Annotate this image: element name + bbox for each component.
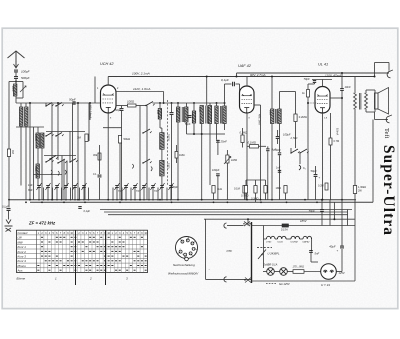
svg-text:1MΩ: 1MΩ bbox=[179, 153, 185, 157]
svg-text:0,7MΩ: 0,7MΩ bbox=[241, 195, 249, 198]
wire bbox=[69, 131, 71, 162]
node bbox=[374, 76, 376, 78]
svg-text:Ebene: Ebene bbox=[17, 277, 26, 281]
switch contact row4 a bbox=[49, 158, 50, 159]
capacitor osc bbox=[170, 112, 174, 114]
node bbox=[271, 76, 273, 78]
wire bbox=[304, 271, 321, 273]
paper grain bbox=[0, 0, 1, 1]
svg-text:UL41: UL41 bbox=[278, 240, 284, 243]
wire screen line bbox=[116, 91, 164, 93]
svg-text:0,1µF: 0,1µF bbox=[84, 210, 91, 213]
switch contact row1 b bbox=[55, 105, 56, 106]
svg-text:50pF: 50pF bbox=[115, 108, 121, 112]
wire bbox=[29, 103, 31, 200]
wire bbox=[322, 80, 324, 87]
svg-text:0,1µF: 0,1µF bbox=[221, 78, 229, 82]
capacitor 5nF bbox=[309, 250, 313, 252]
svg-text:1nF: 1nF bbox=[276, 167, 281, 170]
wire lamp return bbox=[205, 219, 207, 279]
wire bbox=[263, 226, 265, 240]
capacitor 10nF bbox=[340, 88, 344, 90]
wire bbox=[37, 127, 39, 133]
capacitor 100pF bbox=[14, 69, 18, 71]
wire bbox=[119, 143, 121, 200]
rectifier UY41 bbox=[321, 264, 337, 280]
resistor 50k bbox=[118, 136, 121, 144]
wire tube bottom bbox=[107, 113, 109, 200]
wire bbox=[254, 104, 261, 106]
resistor 0.2M bbox=[294, 114, 297, 122]
dial lamp 1 bbox=[267, 268, 275, 276]
bus 5 bbox=[108, 214, 348, 216]
wire bbox=[44, 155, 76, 157]
resistor 0.7M bbox=[244, 186, 247, 194]
switch contact row2 b bbox=[55, 135, 56, 136]
svg-text:4M: 4M bbox=[11, 150, 15, 154]
svg-text:50µF: 50µF bbox=[311, 169, 318, 173]
antenna bbox=[8, 51, 25, 58]
svg-text:2000: 2000 bbox=[269, 110, 271, 116]
capacitor 8uF bbox=[266, 148, 269, 150]
mains terminal lower bbox=[224, 277, 227, 282]
wire bbox=[315, 166, 317, 174]
resistor 1M bottom bbox=[264, 186, 267, 194]
svg-text:UL 41: UL 41 bbox=[318, 63, 328, 67]
wire bbox=[116, 105, 128, 107]
svg-text:2,7kΩ: 2,7kΩ bbox=[290, 136, 298, 140]
svg-text:5nF: 5nF bbox=[315, 252, 320, 256]
svg-text:Kurz 2: Kurz 2 bbox=[18, 250, 27, 254]
capacitor 100uF bbox=[276, 136, 280, 138]
svg-text:10000: 10000 bbox=[34, 134, 37, 141]
wire trimmer drops bbox=[38, 188, 40, 200]
svg-text:50pF: 50pF bbox=[136, 191, 142, 193]
svg-text:NTF: NTF bbox=[227, 249, 233, 253]
wire bbox=[290, 148, 292, 153]
wire tube UL41 bottom bbox=[322, 113, 324, 200]
svg-text:3: 3 bbox=[191, 243, 192, 245]
tube UCH42 bbox=[101, 85, 117, 113]
wire antenna to mixer grid bbox=[15, 96, 17, 103]
resistor 1.36k 2W bbox=[353, 186, 356, 194]
resistor 0.1M bbox=[243, 186, 246, 194]
switch contact osc c bbox=[142, 162, 143, 163]
svg-text:1kΩ: 1kΩ bbox=[217, 187, 222, 191]
wire bbox=[217, 133, 226, 135]
wire bbox=[213, 193, 215, 200]
wire bbox=[177, 103, 179, 107]
wire bbox=[336, 271, 342, 273]
bus ground 2 bbox=[30, 201, 373, 203]
svg-text:MW: MW bbox=[18, 240, 23, 244]
tone cap C bbox=[299, 165, 301, 170]
fuse 0.15A bbox=[282, 224, 289, 227]
svg-text:U Y 41: U Y 41 bbox=[321, 283, 330, 287]
wire bbox=[216, 103, 218, 106]
wire bbox=[280, 91, 296, 93]
svg-text:1MΩ: 1MΩ bbox=[231, 158, 238, 162]
wire bbox=[263, 271, 267, 273]
wire bbox=[99, 145, 101, 174]
wire bbox=[329, 200, 331, 226]
svg-text:→: → bbox=[208, 268, 210, 271]
mains switch upper bbox=[244, 222, 250, 227]
capacitor 50uF cath bbox=[314, 174, 318, 176]
IF transformer T4 bbox=[271, 109, 274, 124]
wire bbox=[37, 178, 39, 186]
svg-text:500pF: 500pF bbox=[21, 76, 30, 80]
coil osc 1000 bbox=[160, 160, 164, 176]
speaker bbox=[375, 93, 379, 109]
wire bbox=[277, 130, 279, 136]
svg-text:110V, 47mA: 110V, 47mA bbox=[325, 74, 341, 78]
svg-text:Kurz 3: Kurz 3 bbox=[18, 255, 27, 259]
wire bbox=[161, 149, 163, 160]
resistor R left 4M bbox=[7, 149, 10, 157]
capacitor left bbox=[98, 174, 102, 176]
node bbox=[341, 72, 343, 74]
tube UAF42 bbox=[240, 86, 255, 113]
svg-text:40µF: 40µF bbox=[329, 244, 336, 248]
wire bbox=[244, 193, 246, 200]
svg-text:bei 125V: bei 125V bbox=[279, 282, 290, 286]
resistor 0.3M bbox=[254, 186, 257, 194]
wire B+ to transformer bbox=[374, 63, 376, 77]
wire bbox=[295, 92, 297, 115]
wire bbox=[310, 253, 312, 262]
capacitor 100pF bbox=[216, 173, 220, 175]
wire tube UAF42 bottom bbox=[246, 113, 248, 200]
label 70pF psu bbox=[320, 209, 324, 211]
resistor 100ohm bbox=[128, 104, 137, 107]
mains terminal upper bbox=[224, 223, 227, 228]
heater chain coils bbox=[266, 236, 275, 239]
wire bbox=[8, 200, 10, 208]
wire bbox=[225, 83, 232, 85]
svg-text:50kΩ: 50kΩ bbox=[124, 137, 131, 141]
svg-text:2x6BR 0,1A: 2x6BR 0,1A bbox=[263, 263, 278, 267]
svg-text:0.2MΩ: 0.2MΩ bbox=[299, 115, 307, 119]
wire bbox=[226, 150, 228, 155]
resistor 0.2M 1W bbox=[325, 183, 328, 190]
coil osc 100 bbox=[158, 109, 161, 120]
capacitor 70pF top bbox=[313, 80, 316, 82]
svg-text:+: + bbox=[319, 176, 321, 180]
node antenna bottom bbox=[15, 81, 17, 83]
svg-text:4000: 4000 bbox=[34, 166, 37, 172]
capacitor 50pF grid bbox=[120, 108, 124, 110]
svg-text:2: 2 bbox=[186, 240, 187, 242]
IF transformer T3 bbox=[215, 106, 218, 124]
switch table contact marks bbox=[41, 236, 43, 238]
svg-text:LW: LW bbox=[18, 236, 23, 240]
resistor 1k bbox=[212, 186, 215, 194]
bus 4 bbox=[104, 211, 348, 213]
resistor 0.1M horizontal bbox=[250, 145, 259, 148]
coil 20000 bbox=[160, 133, 164, 150]
wire bbox=[8, 102, 10, 104]
capacitor 50pF series bbox=[72, 101, 74, 105]
IF transformer T1 bbox=[177, 107, 180, 122]
wire bbox=[321, 200, 323, 209]
wire bbox=[46, 131, 85, 133]
wire bbox=[307, 84, 309, 90]
ground symbol bbox=[6, 220, 11, 224]
wire bbox=[206, 77, 208, 106]
capacitor 500pF bbox=[14, 76, 18, 78]
svg-text:Kurz 1: Kurz 1 bbox=[18, 245, 27, 249]
svg-text:100: 100 bbox=[156, 110, 159, 115]
svg-text:170↔98Ω: 170↔98Ω bbox=[293, 266, 304, 269]
svg-text:2W: 2W bbox=[358, 190, 362, 193]
tone switch a bbox=[290, 152, 291, 153]
svg-text:6: 6 bbox=[182, 254, 183, 256]
dropper resistor bbox=[293, 270, 304, 274]
svg-text:0,1MΩ: 0,1MΩ bbox=[248, 141, 257, 145]
wire bbox=[311, 249, 313, 252]
pickup jack lower bbox=[386, 116, 389, 123]
wire speaker return bbox=[372, 120, 374, 203]
wire bbox=[271, 77, 273, 110]
resistor grid UL41 bbox=[307, 90, 310, 98]
switch contact row3 c bbox=[69, 161, 70, 162]
svg-text:Wellnutrussad 8860/V: Wellnutrussad 8860/V bbox=[168, 272, 199, 276]
svg-text:50pF: 50pF bbox=[118, 191, 124, 193]
wire bbox=[33, 127, 35, 200]
svg-text:Sechsschaltung: Sechsschaltung bbox=[173, 263, 195, 267]
output transformer bbox=[354, 93, 357, 109]
svg-text:+: + bbox=[337, 249, 339, 253]
svg-text:100Ω: 100Ω bbox=[127, 100, 135, 104]
switch contact row1 a bbox=[45, 105, 46, 106]
ganged switch dashed bbox=[167, 100, 169, 185]
capacitor 40uF bbox=[340, 245, 344, 247]
capacitor 25nF bbox=[216, 139, 220, 141]
trimmer bank left bbox=[37, 185, 41, 187]
svg-text:0,1µF: 0,1µF bbox=[2, 205, 9, 209]
svg-text:400pF: 400pF bbox=[171, 185, 179, 189]
resistor 500ohm bbox=[175, 152, 178, 159]
power box bottom bbox=[252, 280, 356, 282]
bus 100V line bbox=[108, 76, 374, 78]
wire bbox=[139, 106, 141, 200]
svg-text:1000: 1000 bbox=[11, 86, 15, 92]
svg-text:UAF42: UAF42 bbox=[303, 240, 311, 243]
wire bbox=[267, 146, 269, 148]
svg-text:Kurz 4: Kurz 4 bbox=[18, 259, 27, 263]
wire bbox=[236, 73, 238, 77]
dial lamp 2 bbox=[280, 268, 288, 276]
label bei 125V bbox=[266, 282, 277, 284]
svg-text:0,1MΩ: 0,1MΩ bbox=[240, 132, 248, 135]
wire bbox=[193, 103, 195, 111]
svg-text:30k: 30k bbox=[93, 153, 98, 157]
tube socket diagram bbox=[176, 237, 198, 259]
svg-text:1: 1 bbox=[181, 242, 182, 244]
svg-text:UCH 42: UCH 42 bbox=[100, 62, 114, 66]
svg-text:Phono: Phono bbox=[18, 264, 27, 268]
wire 185V feed bbox=[204, 218, 355, 220]
svg-text:0.1M: 0.1M bbox=[234, 187, 240, 191]
wire bbox=[279, 155, 281, 200]
svg-text:2000: 2000 bbox=[198, 107, 200, 113]
IF transformer T2 bbox=[200, 106, 203, 124]
svg-text:50pF: 50pF bbox=[185, 123, 191, 126]
bus junction dots bbox=[8, 199, 10, 201]
wire bbox=[161, 176, 163, 200]
svg-text:25nF: 25nF bbox=[220, 140, 228, 144]
svg-text:100V, 2.1mA: 100V, 2.1mA bbox=[132, 72, 150, 76]
resistor 30k bbox=[98, 153, 101, 160]
wire bbox=[187, 133, 217, 135]
wire bbox=[89, 103, 91, 120]
wire trimmer drops mid bbox=[112, 188, 114, 200]
svg-text:1M: 1M bbox=[77, 136, 82, 140]
wire bbox=[330, 113, 332, 138]
power box top bbox=[252, 225, 356, 227]
svg-text:50pF: 50pF bbox=[69, 98, 76, 102]
svg-text:UY41: UY41 bbox=[266, 240, 272, 243]
antenna coil pair bbox=[20, 107, 23, 126]
switch contact row3 a bbox=[45, 161, 46, 162]
wire bbox=[45, 103, 47, 106]
tube UL41 bbox=[315, 87, 330, 114]
trimmer bank mid bbox=[115, 185, 119, 187]
wire anode up bbox=[107, 77, 109, 86]
coil detector bbox=[192, 111, 195, 123]
volume pot 1M bbox=[226, 155, 229, 163]
svg-text:100µF: 100µF bbox=[283, 133, 291, 137]
wire bbox=[9, 81, 16, 83]
capacitor 0.1uF coupling bbox=[232, 82, 234, 87]
wire bbox=[247, 145, 250, 147]
svg-text:0.7M: 0.7M bbox=[334, 140, 340, 143]
switch table frame bbox=[17, 230, 148, 272]
switch rest hooks bbox=[51, 164, 152, 176]
svg-text:U 2436PL: U 2436PL bbox=[268, 252, 280, 256]
svg-text:C₅: C₅ bbox=[303, 167, 306, 170]
resistor 0.1M agc bbox=[241, 135, 244, 143]
bus 3 bbox=[100, 209, 352, 211]
svg-text:Aus: Aus bbox=[17, 269, 24, 273]
svg-text:10nF: 10nF bbox=[345, 85, 351, 89]
svg-text:8nF: 8nF bbox=[28, 188, 33, 192]
wire bbox=[159, 103, 161, 109]
wire bbox=[20, 103, 22, 107]
wire bbox=[246, 77, 248, 87]
capacitor 30nF bbox=[278, 152, 281, 154]
svg-text:90V, 2.7mA: 90V, 2.7mA bbox=[250, 73, 265, 77]
capacitor 0.1uF ground bbox=[7, 208, 11, 210]
coil 4000 bbox=[36, 164, 39, 178]
svg-text:49V, 2mA: 49V, 2mA bbox=[257, 114, 260, 125]
wire bbox=[121, 106, 123, 109]
wire bbox=[330, 97, 342, 99]
capacitor 1nF bbox=[278, 169, 281, 171]
resistor bottom x bbox=[284, 186, 287, 194]
tone switch b bbox=[299, 152, 300, 153]
wire bbox=[354, 77, 356, 94]
svg-text:8,0mA: 8,0mA bbox=[336, 128, 339, 136]
switch table heavy dividers bbox=[75, 230, 77, 285]
switch contact osc b bbox=[142, 132, 143, 133]
svg-text:70pF: 70pF bbox=[309, 209, 315, 213]
svg-text:Super-Ultra: Super-Ultra bbox=[380, 145, 397, 236]
svg-text:100pF: 100pF bbox=[21, 70, 30, 74]
svg-text:1nF: 1nF bbox=[28, 183, 33, 187]
svg-text:112V, 1.8mA: 112V, 1.8mA bbox=[133, 87, 150, 91]
capacitor IF1 bbox=[188, 115, 192, 117]
svg-text:UCH42: UCH42 bbox=[291, 240, 299, 243]
wire bbox=[217, 176, 219, 200]
resistor cathode UL41 bbox=[329, 138, 332, 145]
svg-text:7: 7 bbox=[179, 249, 180, 251]
svg-text:ZF = 472 kHz: ZF = 472 kHz bbox=[28, 220, 56, 225]
mains switch lower bbox=[245, 278, 251, 283]
coil L1 1000 bbox=[14, 84, 17, 96]
wire bbox=[314, 83, 316, 84]
svg-text:UAF 42: UAF 42 bbox=[238, 64, 252, 68]
capacitor 0.1uF agc bbox=[78, 206, 81, 208]
coil partner bbox=[41, 133, 44, 148]
coil 10000 bbox=[36, 133, 39, 148]
svg-text:0.2M: 0.2M bbox=[318, 185, 324, 188]
svg-text:Contact: Contact bbox=[18, 231, 28, 235]
wire bbox=[15, 72, 17, 77]
svg-text:50pF: 50pF bbox=[154, 191, 160, 193]
svg-text:2: 2 bbox=[89, 277, 92, 281]
switch contact row2 a bbox=[45, 135, 46, 136]
wire bbox=[245, 193, 247, 200]
svg-text:30nF: 30nF bbox=[275, 149, 281, 152]
switch table row lines bbox=[17, 234, 148, 236]
svg-text:1MΩ: 1MΩ bbox=[276, 186, 282, 190]
svg-text:0,15A: 0,15A bbox=[281, 227, 288, 231]
switch contact row3 b bbox=[57, 162, 58, 163]
wire pickup line bbox=[375, 119, 389, 121]
power box right edge bbox=[354, 226, 356, 282]
switch contact osc a bbox=[145, 105, 146, 106]
svg-text:70pF: 70pF bbox=[304, 77, 310, 81]
voltage selector U2436PL bbox=[258, 250, 266, 260]
switch table column lines bbox=[36, 230, 38, 272]
svg-text:Tefi: Tefi bbox=[383, 128, 390, 139]
svg-text:0.1: 0.1 bbox=[93, 173, 97, 176]
svg-text:4: 4 bbox=[192, 249, 193, 251]
pickup jack upper bbox=[387, 71, 390, 78]
resistor 1M AVC bbox=[85, 134, 88, 142]
power box left edge bbox=[251, 222, 253, 283]
wire variable core branch bbox=[16, 81, 23, 83]
node bbox=[29, 102, 31, 104]
bus UAF42 anode line bbox=[237, 72, 390, 74]
bus ground 1 bbox=[9, 199, 356, 201]
svg-text:5: 5 bbox=[189, 254, 190, 256]
svg-text:100pF: 100pF bbox=[212, 168, 220, 172]
